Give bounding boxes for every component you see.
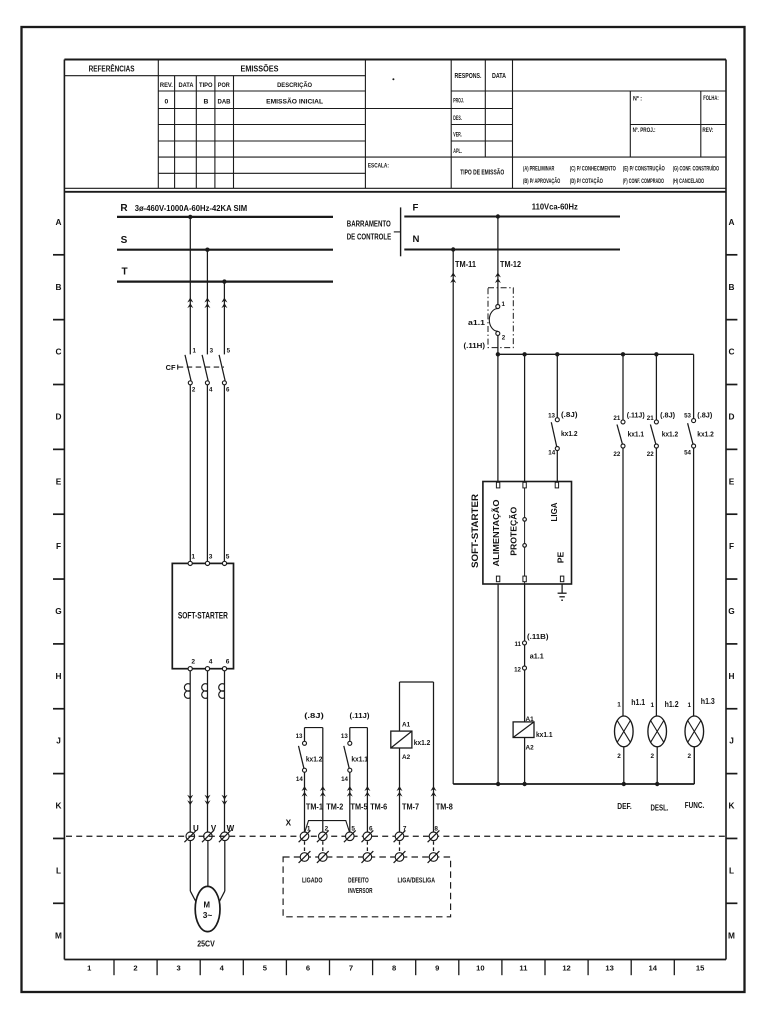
svg-text:SOFT-STARTER: SOFT-STARTER	[470, 493, 480, 568]
svg-text:3: 3	[177, 964, 181, 973]
svg-text:5: 5	[351, 826, 355, 833]
svg-text:22: 22	[647, 451, 654, 458]
svg-text:PROJ.: PROJ.	[453, 97, 464, 104]
svg-text:(H) CANCELADO: (H) CANCELADO	[673, 179, 705, 185]
svg-text:M: M	[55, 930, 62, 940]
svg-text:TM-8: TM-8	[436, 803, 454, 812]
svg-text:2: 2	[325, 826, 329, 833]
svg-text:L: L	[729, 865, 734, 875]
svg-text:TIPO DE EMISSÃO: TIPO DE EMISSÃO	[460, 168, 504, 177]
svg-text:22: 22	[613, 451, 620, 458]
svg-text:TM-11: TM-11	[455, 260, 477, 269]
svg-text:G: G	[728, 606, 734, 616]
svg-text:kx1.1: kx1.1	[351, 754, 368, 763]
svg-text:F: F	[729, 541, 734, 551]
svg-text:2: 2	[191, 659, 195, 666]
svg-text:M: M	[204, 900, 211, 909]
svg-text:F: F	[56, 541, 61, 551]
svg-text:7: 7	[349, 964, 353, 973]
svg-text:TM-7: TM-7	[402, 803, 419, 812]
svg-text:(E) P/ CONSTRUÇÃO: (E) P/ CONSTRUÇÃO	[623, 165, 665, 172]
svg-text:APL.: APL.	[453, 148, 462, 155]
svg-text:E: E	[729, 476, 735, 486]
svg-text:0: 0	[165, 98, 169, 105]
svg-text:h1.2: h1.2	[665, 700, 680, 709]
svg-text:Nº. PROJ.:: Nº. PROJ.:	[633, 127, 656, 134]
svg-text:A2: A2	[402, 754, 411, 761]
svg-text:A: A	[56, 217, 62, 227]
svg-text:1: 1	[307, 826, 311, 833]
svg-text:LIGA: LIGA	[549, 503, 559, 522]
svg-text:EMISSÃO INICIAL: EMISSÃO INICIAL	[266, 96, 323, 105]
svg-text:REFERÊNCIAS: REFERÊNCIAS	[89, 63, 135, 74]
svg-text:1: 1	[617, 702, 621, 709]
svg-text:13: 13	[296, 733, 303, 740]
svg-text:2: 2	[688, 753, 692, 760]
svg-text:R: R	[120, 203, 128, 214]
svg-text:14: 14	[296, 776, 303, 783]
svg-text:C: C	[729, 347, 735, 357]
svg-text:TM-5: TM-5	[351, 803, 369, 812]
svg-text:14: 14	[548, 450, 555, 457]
svg-text:B: B	[56, 282, 62, 292]
svg-text:21: 21	[647, 415, 654, 422]
svg-text:4: 4	[209, 659, 213, 666]
svg-text:TIPO: TIPO	[199, 82, 213, 89]
svg-text:25CV: 25CV	[197, 939, 215, 949]
svg-text:2: 2	[617, 753, 621, 760]
svg-text:2: 2	[502, 335, 506, 342]
svg-text:K: K	[56, 801, 62, 811]
svg-text:PE: PE	[555, 551, 565, 563]
svg-text:13: 13	[341, 733, 348, 740]
svg-text:RESPONS.: RESPONS.	[455, 71, 482, 80]
svg-text:1: 1	[193, 348, 197, 355]
svg-text:12: 12	[514, 667, 521, 674]
svg-text:2: 2	[651, 753, 655, 760]
svg-text:TM-2: TM-2	[326, 803, 344, 812]
svg-text:8: 8	[434, 826, 438, 833]
svg-text:kx1.2: kx1.2	[662, 430, 679, 439]
svg-text:6: 6	[226, 387, 230, 394]
svg-text:F: F	[412, 202, 418, 213]
svg-text:FUNC.: FUNC.	[685, 801, 705, 810]
svg-text:2: 2	[133, 964, 137, 973]
svg-text:SOFT-STARTER: SOFT-STARTER	[178, 610, 228, 620]
svg-text:12: 12	[562, 964, 570, 973]
svg-text:TM-6: TM-6	[370, 803, 388, 812]
svg-text:L: L	[56, 865, 61, 875]
svg-text:(.8J): (.8J)	[561, 410, 578, 419]
svg-text:(.8J): (.8J)	[304, 711, 324, 720]
svg-text:h1.1: h1.1	[631, 698, 646, 707]
svg-text:2: 2	[192, 387, 196, 394]
svg-text:11: 11	[519, 964, 528, 973]
svg-text:(F) CONF. COMPRADO: (F) CONF. COMPRADO	[623, 179, 664, 185]
svg-text:3: 3	[209, 553, 213, 560]
svg-text:X: X	[286, 819, 292, 828]
svg-text:8: 8	[392, 964, 396, 973]
svg-text:(.8J): (.8J)	[697, 411, 713, 420]
svg-text:E: E	[56, 476, 62, 486]
svg-text:POR: POR	[218, 82, 230, 89]
svg-text:3: 3	[210, 348, 214, 355]
svg-text:A1: A1	[526, 716, 535, 723]
svg-text:4: 4	[209, 387, 213, 394]
svg-text:DAB: DAB	[218, 98, 231, 105]
svg-text:3ø-460V-1000A-60Hz-42KA SIM: 3ø-460V-1000A-60Hz-42KA SIM	[135, 204, 248, 213]
svg-text:(B) P/ APROVAÇÃO: (B) P/ APROVAÇÃO	[523, 178, 561, 185]
svg-text:Nº :: Nº :	[633, 96, 642, 103]
svg-text:A1: A1	[402, 721, 411, 728]
svg-text:TM-12: TM-12	[500, 260, 522, 269]
svg-text:C: C	[56, 347, 62, 357]
svg-text:21: 21	[613, 415, 620, 422]
svg-text:1: 1	[651, 702, 655, 709]
svg-text:7: 7	[403, 826, 407, 833]
svg-text:(A) PRELIMINAR: (A) PRELIMINAR	[523, 166, 555, 172]
svg-text:D: D	[56, 411, 62, 421]
svg-text:T: T	[121, 267, 127, 278]
svg-text:V: V	[211, 824, 217, 833]
svg-text:kx1.2: kx1.2	[561, 429, 578, 438]
svg-text:ESCALA:: ESCALA:	[368, 162, 389, 169]
svg-text:14: 14	[649, 964, 658, 973]
svg-text:H: H	[729, 671, 735, 681]
svg-text:G: G	[55, 606, 61, 616]
svg-text:11: 11	[514, 641, 521, 648]
svg-text:FOLHA:: FOLHA:	[703, 95, 719, 102]
svg-text:5: 5	[226, 553, 230, 560]
svg-text:DES.: DES.	[453, 115, 462, 122]
svg-text:(C) P/ CONHECIMENTO: (C) P/ CONHECIMENTO	[570, 166, 616, 172]
svg-text:1: 1	[191, 553, 195, 560]
svg-text:h1.3: h1.3	[701, 697, 716, 706]
svg-text:DESL.: DESL.	[651, 804, 669, 813]
svg-text:BARRAMENTO: BARRAMENTO	[347, 219, 391, 229]
svg-text:13: 13	[605, 964, 613, 973]
svg-text:kx1.2: kx1.2	[697, 430, 714, 439]
svg-text:110Vca-60Hz: 110Vca-60Hz	[532, 202, 578, 211]
svg-text:a1.1: a1.1	[530, 652, 544, 661]
svg-text:B: B	[204, 98, 209, 105]
svg-text:D: D	[729, 411, 735, 421]
svg-text:S: S	[121, 235, 128, 246]
svg-text:3~: 3~	[203, 910, 213, 920]
svg-text:DATA: DATA	[492, 71, 506, 80]
svg-text:J: J	[729, 736, 734, 746]
svg-text:DEFEITO: DEFEITO	[348, 877, 369, 884]
svg-text:DEF.: DEF.	[617, 802, 632, 811]
svg-text:6: 6	[306, 964, 310, 973]
svg-text:kx1.1: kx1.1	[536, 730, 553, 739]
svg-text:DE CONTROLE: DE CONTROLE	[347, 232, 392, 242]
svg-text:1: 1	[502, 301, 506, 308]
svg-text:(.11H): (.11H)	[464, 341, 486, 350]
svg-text:1: 1	[688, 702, 692, 709]
svg-text:(G) CONF. CONSTRUÍDO: (G) CONF. CONSTRUÍDO	[673, 164, 720, 172]
svg-text:53: 53	[684, 413, 691, 420]
svg-text:15: 15	[696, 964, 705, 973]
svg-text:ALIMENTAÇÃO: ALIMENTAÇÃO	[491, 499, 501, 567]
svg-text:H: H	[56, 671, 62, 681]
svg-text:kx1.2: kx1.2	[414, 738, 431, 747]
svg-text:A: A	[729, 217, 735, 227]
svg-text:9: 9	[435, 964, 439, 973]
svg-text:VER.: VER.	[453, 132, 462, 139]
svg-text:DESCRIÇÃO: DESCRIÇÃO	[277, 80, 312, 89]
svg-text:(.8J): (.8J)	[660, 411, 676, 420]
svg-text:M: M	[728, 930, 735, 940]
svg-text:PROTEÇÃO: PROTEÇÃO	[509, 506, 519, 555]
svg-text:kx1.1: kx1.1	[628, 430, 645, 439]
svg-text:13: 13	[548, 413, 555, 420]
svg-text:B: B	[729, 282, 735, 292]
svg-text:14: 14	[341, 776, 348, 783]
svg-text:a1.1: a1.1	[468, 318, 485, 327]
svg-text:LIGA/DESLIGA: LIGA/DESLIGA	[398, 877, 436, 884]
svg-text:(.11J): (.11J)	[627, 411, 646, 420]
svg-text:REV:: REV:	[702, 127, 713, 134]
svg-text:54: 54	[684, 450, 691, 457]
svg-text:LIGADO: LIGADO	[302, 877, 323, 884]
svg-text:A2: A2	[526, 744, 535, 751]
svg-text:EMISSÕES: EMISSÕES	[241, 64, 279, 74]
svg-text:kx1.2: kx1.2	[306, 754, 323, 763]
svg-text:6: 6	[369, 826, 373, 833]
svg-text:(.11B): (.11B)	[527, 632, 549, 641]
svg-text:DATA: DATA	[179, 82, 194, 89]
svg-text:J: J	[56, 736, 61, 746]
svg-text:N: N	[413, 234, 420, 245]
svg-text:REV.: REV.	[160, 82, 173, 89]
svg-text:(.11J): (.11J)	[350, 711, 371, 720]
svg-text:W: W	[227, 824, 235, 833]
svg-text:(D) P/ COTAÇÃO: (D) P/ COTAÇÃO	[570, 178, 603, 185]
svg-text:6: 6	[226, 659, 230, 666]
svg-text:K: K	[729, 801, 735, 811]
svg-text:TM-1: TM-1	[306, 803, 324, 812]
svg-text:CF: CF	[166, 363, 176, 372]
svg-text:INVERSOR: INVERSOR	[348, 888, 373, 895]
svg-text:10: 10	[476, 964, 484, 973]
svg-text:5: 5	[227, 348, 231, 355]
